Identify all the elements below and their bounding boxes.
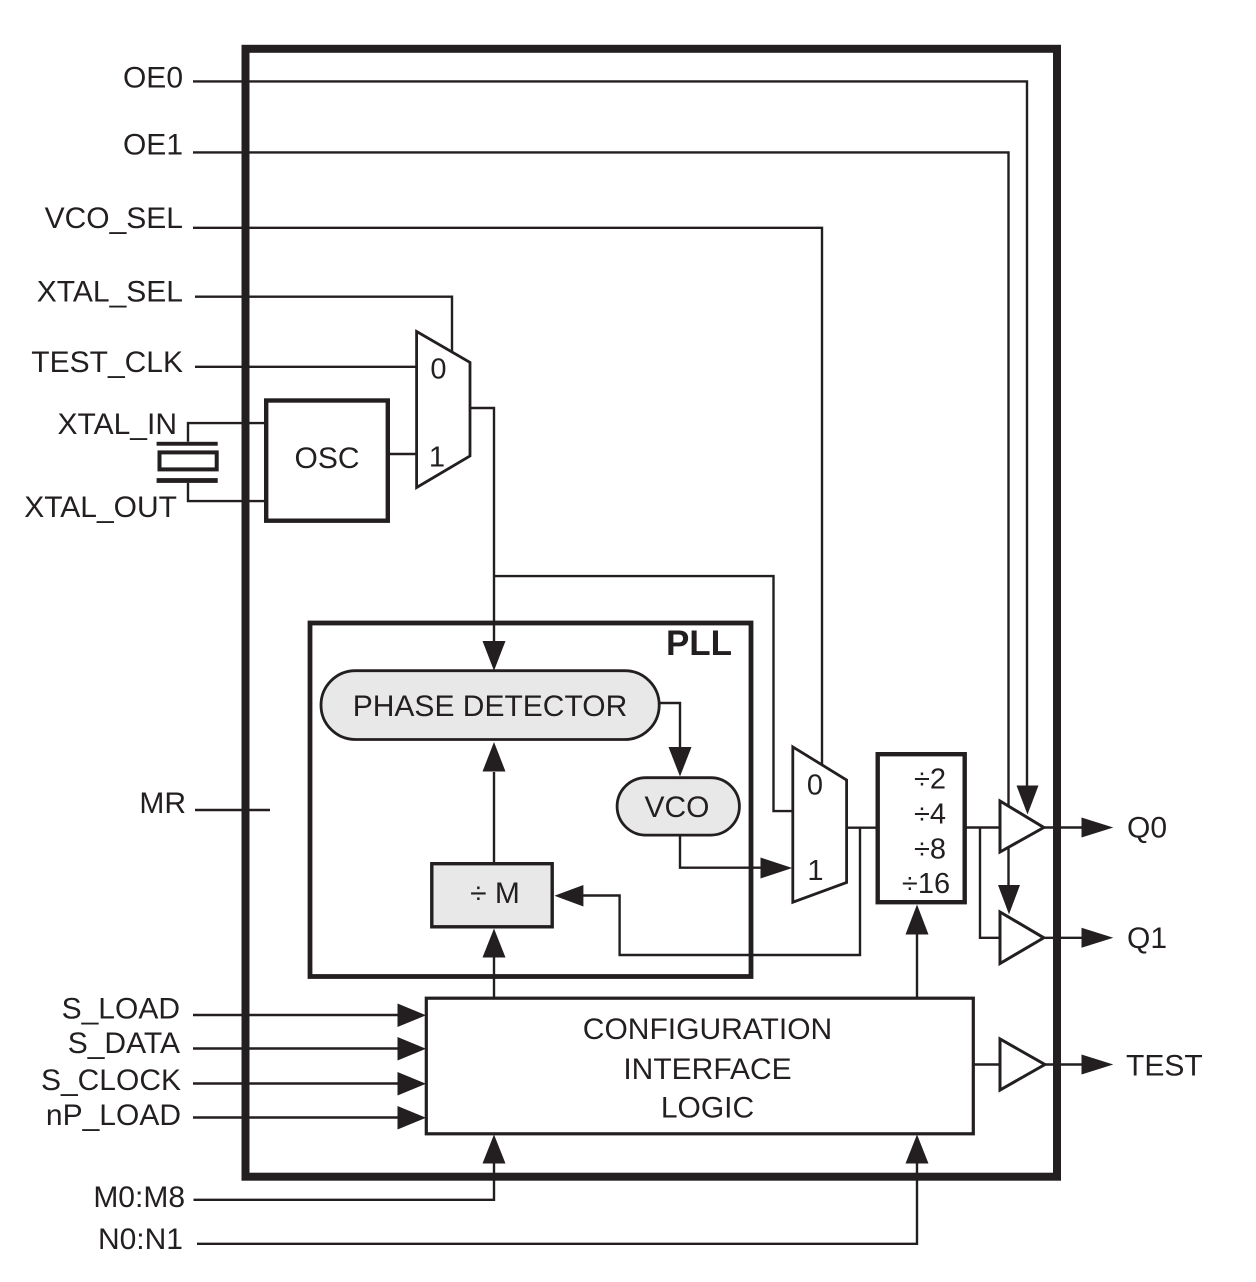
wire phase detector feedback up [493, 772, 495, 864]
svg-text:0: 0 [807, 770, 823, 802]
svg-text:CONFIGURATION: CONFIGURATION [583, 1013, 832, 1046]
outer chip border [246, 49, 1058, 1177]
svg-text:nP_LOAD: nP_LOAD [46, 1099, 181, 1132]
svg-text:OSC: OSC [294, 442, 359, 475]
wire divider output to Q0 buffer [965, 826, 999, 828]
wire mux2 output to divider [847, 827, 878, 829]
wire branch to Q1 buffer [980, 828, 999, 938]
buffer TEST [1000, 1039, 1045, 1090]
mux U1 [417, 332, 470, 488]
svg-text:0: 0 [430, 354, 446, 386]
config interface logic block [426, 998, 973, 1134]
svg-text:XTAL_SEL: XTAL_SEL [37, 276, 183, 309]
wire S_LOAD [193, 1014, 399, 1016]
svg-text:S_LOAD: S_LOAD [62, 993, 180, 1026]
svg-text:÷2: ÷2 [914, 763, 946, 795]
vco U3 [617, 778, 739, 835]
wire S_CLOCK [193, 1082, 399, 1084]
arrowhead into divider bottom [906, 905, 929, 935]
arrowhead vco into mux2 input 1 [761, 858, 793, 879]
arrowhead output TEST [1082, 1055, 1114, 1075]
output divider block [878, 754, 965, 902]
buffer Q1 [1000, 912, 1044, 964]
arrowhead into divM bottom [483, 929, 506, 958]
divider M block [432, 864, 552, 927]
svg-text:M0:M8: M0:M8 [93, 1181, 185, 1214]
svg-text:PHASE DETECTOR: PHASE DETECTOR [353, 690, 628, 723]
arrowhead nP_LOAD into config [398, 1106, 427, 1130]
arrowhead S_LOAD into config [398, 1004, 427, 1028]
wire config to divider select [916, 933, 918, 998]
phase detector U2 [321, 671, 659, 740]
svg-text:VCO_SEL: VCO_SEL [45, 202, 183, 235]
arrowhead into divM [554, 885, 583, 907]
wire divM feedback from mux2 output [583, 828, 860, 955]
svg-text:TEST_CLK: TEST_CLK [31, 346, 183, 379]
svg-text:÷ M: ÷ M [470, 877, 520, 910]
wire S_DATA [193, 1047, 399, 1049]
osc block [266, 401, 388, 521]
buffer Q0 [1000, 801, 1044, 852]
svg-text:OE0: OE0 [123, 62, 183, 95]
svg-text:S_CLOCK: S_CLOCK [41, 1064, 181, 1097]
svg-text:1: 1 [807, 855, 823, 887]
arrowhead output Q1 [1082, 928, 1114, 948]
arrowhead into vco [669, 747, 692, 777]
svg-text:Q0: Q0 [1127, 812, 1167, 845]
wire VCO_SEL [193, 228, 822, 766]
arrowhead into phase detector bottom [483, 742, 506, 772]
svg-text:1: 1 [429, 442, 445, 474]
arrowhead S_DATA into config [398, 1037, 427, 1061]
arrowhead S_CLOCK into config [398, 1072, 427, 1096]
svg-text:S_DATA: S_DATA [68, 1027, 180, 1060]
crystal Y1 body [160, 452, 217, 469]
wire MR stub [195, 809, 270, 811]
svg-text:XTAL_IN: XTAL_IN [58, 408, 178, 441]
svg-text:OE1: OE1 [123, 129, 183, 162]
wire phase detector to VCO [659, 703, 680, 748]
crystal Y1 bottom plate [157, 478, 218, 483]
wire mux1 output to phase detector [470, 408, 494, 642]
arrowhead OE1 into Q1 buffer [998, 885, 1020, 914]
crystal Y1 top plate [157, 442, 218, 446]
wire XTAL_IN [188, 423, 264, 442]
svg-text:INTERFACE: INTERFACE [623, 1053, 791, 1086]
svg-text:TEST: TEST [1126, 1049, 1203, 1082]
svg-text:÷4: ÷4 [914, 799, 946, 831]
wire OE0 [193, 81, 1027, 787]
arrowhead M0:M8 into config bottom [483, 1135, 506, 1164]
svg-text:÷8: ÷8 [914, 834, 946, 866]
svg-text:Q1: Q1 [1127, 922, 1167, 955]
svg-text:N0:N1: N0:N1 [98, 1223, 183, 1256]
arrowhead output Q0 [1082, 818, 1114, 838]
wire config to divM select [493, 955, 495, 998]
wire M0:M8 [194, 1162, 495, 1200]
arrowhead into phase detector top [483, 641, 506, 671]
wire XTAL_OUT [188, 483, 264, 501]
wire TEST_CLK [195, 366, 417, 368]
arrowhead N0:N1 into config bottom [906, 1135, 929, 1164]
wire Q0 buffer output [1043, 826, 1082, 828]
wire TEST buffer output [1045, 1063, 1082, 1065]
svg-text:PLL: PLL [666, 624, 732, 663]
arrowhead OE0 into Q0 buffer [1017, 786, 1039, 815]
wire nP_LOAD [193, 1116, 399, 1118]
svg-text:XTAL_OUT: XTAL_OUT [24, 491, 177, 524]
wire config to TEST buffer [973, 1063, 1000, 1065]
svg-text:VCO: VCO [644, 791, 709, 824]
svg-text:MR: MR [139, 787, 186, 820]
svg-text:÷16: ÷16 [902, 868, 950, 900]
wire N0:N1 [197, 1162, 917, 1244]
mux U4 [793, 747, 847, 902]
svg-text:LOGIC: LOGIC [661, 1092, 754, 1125]
wire OE1 [193, 152, 1009, 886]
wire XTAL_SEL [195, 297, 452, 353]
PLL box [310, 623, 751, 977]
wire node ref branch to mux2 input 0 [494, 576, 793, 811]
wire OSC to mux1 [390, 453, 417, 455]
wire VCO to mux2 input 1 [680, 835, 761, 868]
wire Q1 buffer output [1044, 937, 1082, 939]
